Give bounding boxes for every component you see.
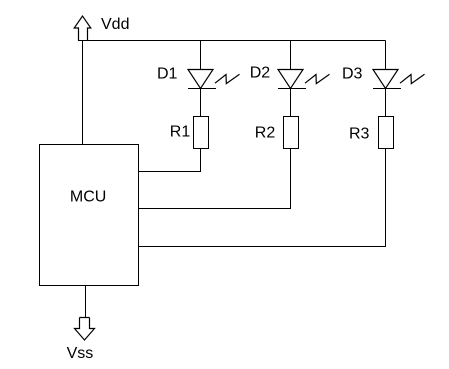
wire D3 to R3 bbox=[385, 89, 387, 117]
svg-text:MCU: MCU bbox=[70, 188, 106, 205]
svg-text:R3: R3 bbox=[349, 126, 370, 143]
svg-text:D2: D2 bbox=[250, 64, 271, 81]
wire D2 to R2 bbox=[290, 89, 292, 117]
LED D1 bbox=[188, 70, 240, 89]
wire R2 to MCU bbox=[138, 149, 291, 209]
resistor R2 bbox=[284, 117, 299, 149]
svg-text:D3: D3 bbox=[342, 66, 363, 83]
LED D2 bbox=[278, 70, 330, 89]
wire Vdd to MCU top bbox=[82, 41, 84, 145]
wire rail to D2 bbox=[290, 41, 292, 70]
power symbol Vss bbox=[75, 318, 95, 341]
svg-text:Vss: Vss bbox=[67, 345, 94, 362]
resistor R1 bbox=[194, 117, 209, 149]
svg-text:D1: D1 bbox=[157, 66, 178, 83]
wire R3 to MCU bbox=[138, 149, 386, 247]
wire R1 to MCU bbox=[138, 149, 201, 172]
wire rail to D1 bbox=[200, 41, 202, 70]
wire Vdd rail bbox=[78, 40, 386, 42]
wire rail to D3 bbox=[385, 41, 387, 70]
svg-text:Vdd: Vdd bbox=[101, 16, 129, 33]
wire MCU bottom to Vss bbox=[85, 286, 87, 318]
MCU U1 bbox=[40, 145, 139, 286]
wire D1 to R1 bbox=[200, 89, 202, 117]
svg-text:R1: R1 bbox=[170, 124, 191, 141]
resistor R3 bbox=[379, 117, 394, 149]
LED D3 bbox=[373, 70, 425, 89]
power symbol Vdd bbox=[74, 16, 91, 41]
svg-text:R2: R2 bbox=[255, 125, 276, 142]
